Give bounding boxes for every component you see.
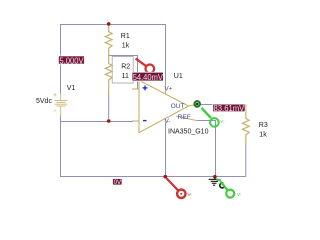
svg-text:R2: R2 [121, 64, 130, 71]
V1 polarity marks [54, 93, 57, 111]
svg-text:83.61mV: 83.61mV [214, 104, 245, 113]
svg-text:REF: REF [178, 114, 191, 121]
node OUT marker [195, 101, 200, 106]
resistor R2 [105, 55, 112, 94]
pin mark minus input [143, 120, 147, 122]
voltage source V1 battery plates [55, 93, 68, 117]
svg-text:OUT: OUT [171, 103, 185, 110]
bias label 0V [113, 179, 123, 187]
voltage probe green at REF node [202, 108, 226, 127]
svg-text:5.000V: 5.000V [59, 56, 84, 65]
svg-text:V-: V- [188, 192, 193, 197]
svg-text:0V: 0V [114, 179, 122, 186]
svg-text:V-: V- [220, 119, 225, 124]
svg-text:V-: V- [165, 119, 171, 125]
voltage probe red at plus input node [136, 59, 155, 74]
voltage probe red at V- net [167, 178, 193, 198]
R2 value edit box [112, 57, 133, 84]
voltage probe green at ground node [217, 180, 242, 198]
svg-text:11: 11 [122, 73, 129, 80]
svg-text:5Vdc: 5Vdc [36, 98, 52, 105]
svg-text:U1: U1 [174, 73, 183, 80]
resistor R1 [105, 25, 112, 55]
junction R2 bottom node [107, 119, 111, 123]
wire V1 plus to top rail and down to U1 V+ [61, 25, 166, 95]
svg-text:V+: V+ [165, 87, 173, 93]
op-amp U1 INA350 body and pins [132, 80, 198, 132]
bias label 5.000V [58, 56, 84, 65]
svg-text:1k: 1k [122, 42, 130, 49]
wire bottom rail to U1 minus input [61, 121, 134, 123]
junction ground node on rail [213, 175, 217, 179]
svg-text:54.40mV: 54.40mV [133, 72, 164, 82]
wire V1 minus down and bottom ground rail [61, 116, 246, 177]
bias label 54.40mV [132, 72, 163, 82]
resistor R3 [242, 104, 249, 144]
svg-text:INA350_G10: INA350_G10 [168, 129, 209, 136]
wire OUT node to R3 top [199, 104, 246, 106]
wire REF pin to ground rail [197, 121, 216, 177]
wire R1/R2 divider node to U1 plus input [109, 56, 138, 90]
bias label 83.61mV [213, 104, 245, 113]
wire U1 V- pin to ground rail [165, 119, 167, 177]
svg-text:V-: V- [237, 192, 242, 197]
svg-text:V1: V1 [67, 85, 76, 92]
svg-text:R3: R3 [259, 122, 268, 129]
junction V- net on ground rail [164, 175, 168, 179]
ground [209, 177, 220, 185]
pin mark plus input [143, 86, 148, 91]
svg-text:R1: R1 [121, 33, 130, 40]
svg-text:1k: 1k [259, 131, 267, 138]
wire R3 bottom to ground rail [245, 143, 247, 177]
wire R2 bottom to minus-input rail [108, 93, 110, 121]
junction top divider node [107, 22, 111, 26]
